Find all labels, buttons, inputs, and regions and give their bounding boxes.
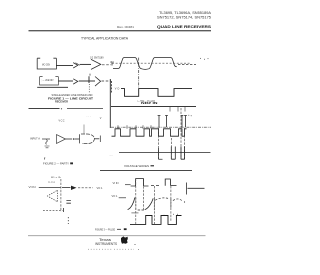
svg-text:VI IN: VI IN [113, 182, 119, 185]
party-line bus wire [29, 108, 60, 110]
VO charge curve 1 [128, 198, 135, 210]
output square trace [130, 216, 182, 225]
AND gate U1 [79, 134, 81, 143]
dash-dot vertical x158.5 [158, 128, 160, 159]
tick above caption [44, 157, 46, 159]
dots above step [173, 214, 174, 215]
VI pulse 2 [165, 179, 170, 186]
wire box1 to arrow [56, 64, 73, 66]
svg-text:V1: V1 [110, 61, 115, 64]
junction vertical [88, 76, 90, 83]
pulse source box 2 [40, 77, 59, 85]
svg-text:INSTRUMENTS: INSTRUMENTS [95, 242, 118, 246]
arrow symbol 2 [73, 79, 78, 84]
junction dot [73, 138, 75, 140]
data pulse train [112, 129, 187, 136]
output tick [99, 136, 101, 143]
input trapezoid wave [113, 58, 177, 70]
svg-text:TL712: TL712 [48, 182, 56, 184]
svg-text:SN75172, SN75174, SN75175: SN75172, SN75174, SN75175 [157, 15, 211, 19]
threshold dashed line [112, 62, 190, 64]
tick at dashed lead end [62, 208, 64, 212]
ground marks [45, 146, 50, 148]
pull-up wire from gate [83, 125, 85, 134]
svg-text:TL3695, TL3696A, SN55189A: TL3695, TL3696A, SN55189A [159, 11, 212, 15]
notch pulse 1 [171, 147, 175, 160]
footer rule [28, 235, 206, 237]
caption end blob [70, 162, 73, 164]
caption end dash [151, 165, 155, 167]
VI inter-pulse dashes [151, 184, 161, 186]
arrow symbol 1 [73, 63, 78, 68]
junction tick top [89, 74, 91, 76]
ground dots below [67, 217, 69, 224]
svg-text:MC GEN: MC GEN [42, 63, 50, 66]
svg-text:V: V [100, 117, 102, 120]
svg-text:QUAD LINE RECEIVERS: QUAD LINE RECEIVERS [157, 24, 211, 29]
svg-text:FIGURE 1 — LINE CIRCUIT: FIGURE 1 — LINE CIRCUIT [48, 97, 93, 101]
receiver triangle 2 [95, 77, 101, 87]
VO hump dashed [155, 198, 169, 200]
output tick row 1 [111, 62, 113, 66]
svg-text:Rev. 00481: Rev. 00481 [117, 25, 134, 29]
termination shunt [46, 140, 48, 145]
output dashes row 2 [102, 80, 112, 82]
gate output wire [94, 138, 99, 140]
dash-dot vertical x184.5 [184, 128, 186, 159]
discharge vertical 3 [170, 199, 172, 209]
address line [88, 248, 112, 250]
output buffer arrow [71, 186, 77, 190]
VI level after pulse 2 [170, 184, 176, 186]
wire junction to receiver2 [89, 80, 95, 82]
svg-text:VI IN: VI IN [29, 186, 36, 189]
VO end dot [184, 201, 185, 202]
dash-dot vertical C [153, 186, 155, 224]
svg-text:VO 1: VO 1 [97, 187, 104, 190]
svg-text:VCC: VCC [59, 119, 65, 122]
dash-dot vertical B [143, 179, 145, 210]
wire arrow1 to receiver1 [80, 63, 91, 65]
dash-dot vertical D [170, 186, 172, 222]
VO charge curve 2 [145, 198, 154, 209]
waveform axis [109, 79, 111, 128]
comparator U2 triangle (dotted) [48, 190, 58, 202]
VI pulse 1 [136, 179, 144, 186]
output square wave [121, 89, 192, 97]
dash-dot vertical x181 [180, 108, 182, 159]
wire triangle to gate [66, 138, 73, 140]
svg-text:NRZ IN: NRZ IN [141, 101, 159, 105]
tail curl dots [200, 58, 201, 59]
VI final level line [188, 187, 205, 189]
svg-text:FIGURE 3 — PULSE: FIGURE 3 — PULSE [95, 227, 115, 231]
notch stub at x158.5 [159, 148, 163, 159]
drop wire to receiver [42, 138, 50, 140]
input wire [39, 186, 61, 188]
output dashes row 1 [102, 64, 111, 66]
svg-text:VOLTAGE WAVES: VOLTAGE WAVES [124, 164, 149, 168]
caption dash [117, 228, 121, 230]
mid dash-dot reference line [111, 126, 211, 128]
header rule [29, 30, 212, 31]
capacitor C1 [66, 201, 71, 204]
long dash-dot vertical A [135, 179, 137, 224]
dash-dot vertical x171.3 [170, 138, 172, 159]
ticks below top line [170, 107, 185, 112]
timing diagram top line [111, 106, 196, 108]
dashed output lead [78, 187, 93, 189]
VO level dash [119, 197, 126, 199]
notch pulse 2 [181, 147, 185, 160]
wire arrow2 to junction [79, 80, 89, 82]
TI map emblem [121, 236, 128, 243]
wire box2 to arrow2 [58, 80, 73, 82]
pulses on reference line [158, 116, 187, 128]
svg-text:FIGURE 2 — PARTY: FIGURE 2 — PARTY [43, 161, 69, 165]
receiver small triangle [57, 135, 66, 144]
discharge vertical 2 [153, 198, 155, 210]
VI baseline feet [131, 185, 149, 187]
wave dashed tail [178, 64, 196, 66]
ground return wire [37, 86, 68, 88]
strobe baseline [119, 152, 211, 154]
svg-text:· · ·: · · · [87, 114, 91, 118]
VI baseline lead dash [125, 184, 131, 186]
VI second fall edge [185, 183, 187, 195]
period after logo [135, 244, 136, 245]
dots right of pulses [188, 115, 189, 116]
svg-text:1/2 SN75189: 1/2 SN75189 [90, 56, 104, 59]
caption dark blob [124, 228, 127, 230]
small ticks on reference line [118, 125, 151, 129]
bus wire right segment [67, 108, 103, 110]
VO low dashes [138, 209, 145, 211]
receiver triangle 1 [91, 59, 101, 69]
svg-text:····: ···· [110, 154, 114, 157]
bus continuation dots [61, 108, 62, 109]
VO end arc dashed [173, 199, 183, 201]
discharge vertical 1 [135, 198, 137, 211]
dotted drop below junction [88, 84, 90, 93]
svg-text:; — LINE DRV: ; — LINE DRV [42, 79, 54, 82]
svg-text:VO 1: VO 1 [112, 195, 119, 198]
grey dash above output trace [131, 212, 138, 214]
svg-text:VO: VO [115, 88, 120, 91]
svg-text:R1 = 2k: R1 = 2k [51, 177, 62, 179]
svg-text:TYPICAL APPLICATION DATA: TYPICAL APPLICATION DATA [81, 36, 128, 40]
figure 3 top rail [100, 170, 192, 172]
output drop row 2 [111, 81, 113, 93]
svg-text:INPUT A: INPUT A [30, 137, 40, 140]
wire to gate [75, 138, 80, 140]
dash-dot vertical connector [138, 58, 140, 89]
output wire [62, 187, 71, 189]
dashed timing lead [43, 209, 63, 211]
pulse source box 1 [37, 58, 56, 69]
dash-dot vertical at comparator output [60, 179, 62, 212]
